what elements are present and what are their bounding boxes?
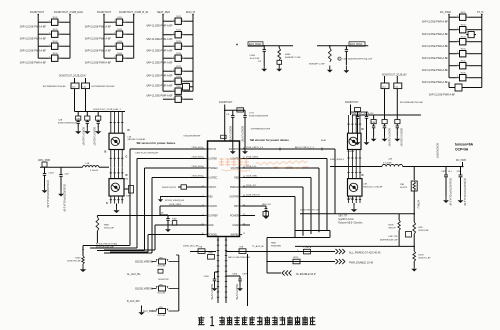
wire left filter feed A bbox=[74, 78, 76, 83]
node U1 left pin 2 net label bbox=[191, 147, 203, 149]
svg-text:9R22F: 9R22F bbox=[293, 257, 299, 259]
wire right filter drop B bbox=[396, 89, 398, 115]
svg-text:B21DB_VREF(2)-: B21DB_VREF(2)- bbox=[135, 262, 153, 264]
svg-text:D: D bbox=[126, 173, 128, 177]
resistor R125 bbox=[163, 66, 193, 74]
capacitor C3B2 bbox=[457, 167, 463, 197]
wire BST right bbox=[242, 205, 262, 207]
resistor R114 bbox=[104, 53, 134, 61]
wire bankD right bus bbox=[481, 14, 483, 78]
svg-text:SAP-CLOSE-PWR-A-BF: SAP-CLOSE-PWR-A-BF bbox=[429, 94, 456, 97]
svg-text:SB version for power James: SB version for power James bbox=[250, 138, 289, 142]
wire PT_AUX left bbox=[190, 251, 216, 253]
node bankA top net labels bbox=[30, 11, 83, 14]
svg-text:R4B: R4B bbox=[418, 227, 423, 229]
wire Q2 drain pins bbox=[110, 167, 124, 178]
capacitor C4B (left filter 2) bbox=[85, 112, 90, 128]
node bankA row 1 net label bbox=[20, 26, 47, 29]
node L4B HB01204 label bbox=[363, 184, 383, 189]
flag ALL_PWRGD output bbox=[336, 249, 345, 254]
resistor R4B (feedback) bbox=[413, 222, 430, 234]
svg-text:21DB_VSETL_F 4: 21DB_VSETL_F 4 bbox=[246, 147, 264, 149]
wire feedback tap upper bbox=[300, 213, 415, 215]
wire Q2 source pins bbox=[110, 196, 124, 204]
svg-text:0R147F: 0R147F bbox=[400, 187, 408, 189]
svg-text:+3VPWRBGNDTN*BF: +3VPWRBGNDTN*BF bbox=[250, 129, 271, 131]
resistor R3B (sense) bbox=[400, 167, 417, 192]
node bankB row 4 net label bbox=[85, 62, 112, 65]
svg-text:SAP-CLOSE-PWR-A-BF: SAP-CLOSE-PWR-A-BF bbox=[20, 50, 47, 53]
node DGNDTOUT_2/12B_BV label (right filter) bbox=[382, 75, 407, 77]
resistor R137 (bank D extra) bbox=[466, 32, 476, 38]
node B21DB_VREF(2)-BF label bbox=[165, 200, 185, 202]
flag PWR_ENABLE output bbox=[336, 259, 345, 264]
connector JP1 row bbox=[135, 257, 179, 267]
svg-text:L2B: L2B bbox=[388, 159, 392, 161]
svg-text:PWR_ENABLE 10.45: PWR_ENABLE 10.45 bbox=[349, 261, 374, 264]
svg-text:DGNDTOUT: DGNDTOUT bbox=[30, 11, 45, 14]
resistor R111 bbox=[104, 17, 134, 25]
resistor R123 bbox=[163, 41, 193, 49]
node U1 right pin row 5 net label bbox=[246, 194, 260, 196]
resistor R47B bbox=[413, 251, 431, 262]
ground (right filter 1) bbox=[371, 136, 377, 142]
resistor R67B (divider) bbox=[388, 214, 400, 247]
inductor L4B bbox=[83, 163, 100, 172]
node U1 left pin 4 net label bbox=[191, 166, 203, 168]
wire U1 right pin row 4 staircase bbox=[242, 187, 303, 236]
node bankB row 3 net label bbox=[85, 50, 112, 53]
wire U1 left pin 4 staircase bbox=[97, 168, 205, 251]
wire RC network 1 rail bbox=[248, 45, 293, 47]
svg-text:PWRGD: PWRGD bbox=[230, 187, 239, 189]
resistor R135 bbox=[449, 61, 482, 69]
wire OSTRP0 right bbox=[242, 196, 292, 198]
wire U1 left pin 5 staircase bbox=[104, 178, 205, 254]
wire Q4 drain pins bbox=[347, 167, 361, 179]
resistor R4B6 bbox=[263, 212, 269, 217]
wire PWR_ENABLE bbox=[266, 261, 335, 263]
wire bottom aux vertical bbox=[247, 254, 249, 306]
svg-text:D: D bbox=[362, 173, 364, 177]
svg-text:21DB_SH3L: 21DB_SH3L bbox=[191, 166, 203, 168]
svg-text:PWRBTN: PWRBTN bbox=[229, 149, 239, 151]
svg-text:SEAT_PEN: SEAT_PEN bbox=[157, 11, 170, 14]
capacitor C4B (left filter 1) bbox=[76, 112, 81, 128]
svg-text:B64B: B64B bbox=[321, 140, 327, 142]
node bankA row 4 net label bbox=[20, 62, 47, 65]
ground (right filter 2) bbox=[382, 136, 388, 142]
svg-text:21DB_SH6TL: 21DB_SH6TL bbox=[246, 156, 260, 158]
svg-text:STB2DRGBN*BF: STB2DRGBN*BF bbox=[183, 135, 201, 137]
node figure caption 图1 bbox=[198, 316, 316, 325]
svg-text:EGN_M: EGN_M bbox=[186, 11, 195, 14]
resistor R138 (bank D bottom loop) bbox=[429, 78, 482, 97]
svg-text:POWER: POWER bbox=[230, 216, 239, 218]
node 7_AUX_RKI label bbox=[127, 300, 140, 303]
wire TONSEL left bbox=[148, 235, 205, 253]
node EGN_BCE3 label (net 2) bbox=[349, 42, 365, 46]
svg-text:DGNDTOUT_2/12B_EGN: DGNDTOUT_2/12B_EGN bbox=[54, 11, 83, 14]
svg-text:B21DB_VREF(2)-BF: B21DB_VREF(2)-BF bbox=[165, 200, 185, 202]
svg-text:C4B: C4B bbox=[65, 174, 70, 176]
node G label (Q1) bbox=[126, 156, 128, 159]
ground (Q3 feed 2) bbox=[364, 139, 370, 145]
svg-text:DGNDTOUT: DGNDTOUT bbox=[345, 101, 359, 104]
svg-text:SAP-CLOSE-PWR-A-BF: SAP-CLOSE-PWR-A-BF bbox=[422, 21, 449, 24]
node B21DB_PRE_B label bbox=[96, 244, 118, 249]
node B64B label bbox=[321, 140, 327, 142]
resistor R132 bbox=[449, 25, 482, 33]
svg-text:AFCOL VSETL_F_4: AFCOL VSETL_F_4 bbox=[295, 146, 315, 149]
node U1 right pin row 1 net label bbox=[246, 156, 260, 158]
wire POWER right bbox=[242, 215, 255, 217]
svg-text:B21DB_VREF(2)-: B21DB_VREF(2)- bbox=[135, 289, 153, 291]
svg-text:BOOT0: BOOT0 bbox=[208, 149, 217, 151]
ground (C4B U1 left) bbox=[165, 226, 171, 232]
svg-text:C30F: C30F bbox=[242, 274, 248, 276]
node DC_PWR label bbox=[456, 160, 466, 162]
ground (C4B5) bbox=[344, 66, 350, 74]
node bankC row 2 net label bbox=[146, 38, 173, 41]
node DGND_AUX_BF label bbox=[183, 244, 199, 247]
capacitor C30B (bottom B) bbox=[226, 274, 248, 286]
node stray junction dot bbox=[236, 44, 238, 46]
svg-text:C4B5 4B2BGNDTNPSOUA-1-BF: C4B5 4B2BGNDTNPSOUA-1-BF bbox=[343, 58, 373, 61]
wire RC network 2 rail bbox=[317, 45, 368, 47]
svg-text:C30B: C30B bbox=[232, 274, 238, 276]
svg-text:R8B1: R8B1 bbox=[271, 243, 277, 245]
node watermark bbox=[220, 158, 311, 171]
svg-text:(R)RPBRGUA*1-BF: (R)RPBRGUA*1-BF bbox=[380, 239, 399, 242]
node DRGB2TN2 label bbox=[158, 279, 170, 281]
node C30B value label A bbox=[210, 284, 213, 300]
ground (FB0) bbox=[158, 196, 165, 202]
svg-text:C4B7 22B: C4B7 22B bbox=[388, 236, 398, 238]
svg-text:BST: BST bbox=[234, 206, 239, 208]
svg-text:R52-2-BF: R52-2-BF bbox=[158, 315, 167, 317]
svg-text:WKPB1: WKPB1 bbox=[231, 235, 240, 237]
ground (left filter 2) bbox=[84, 128, 90, 135]
capacitor C4B6 (BST) bbox=[262, 206, 267, 214]
ground (Q3 feed 1) bbox=[355, 139, 361, 145]
svg-text:DGNDTOUT_2/12B_EGN_1: DGNDTOUT_2/12B_EGN_1 bbox=[93, 109, 121, 111]
node S label (Q2 source) bbox=[106, 201, 108, 205]
wire GND pin left bbox=[155, 225, 205, 250]
node +3VPWRBGNDTN-BF label bbox=[250, 129, 271, 131]
node STB2DRGBN-BF label bbox=[183, 135, 226, 138]
ground (R4B7) bbox=[80, 264, 86, 272]
wire bankA left bus bbox=[37, 14, 39, 59]
svg-text:GgmB.5~12xG: GgmB.5~12xG bbox=[338, 219, 353, 221]
ground (C4B4) bbox=[261, 65, 267, 72]
wire pulldown node bbox=[82, 246, 84, 257]
wire right filter drop A bbox=[384, 89, 386, 115]
svg-text:SAP-CLOSE-PWR-A-BF: SAP-CLOSE-PWR-A-BF bbox=[20, 26, 47, 29]
node ALL_PWRGD label bbox=[349, 251, 381, 254]
svg-text:L_PB2_A: L_PB2_A bbox=[303, 246, 311, 249]
resistor R4B5 (U1 left) bbox=[172, 219, 177, 226]
resistor R103 bbox=[38, 41, 70, 49]
svg-text:BGNDYUN10-BF: BGNDYUN10-BF bbox=[93, 127, 96, 146]
svg-text:OSTRP0: OSTRP0 bbox=[229, 197, 239, 199]
ground (C30B A) bbox=[212, 285, 218, 291]
svg-text:BGNDYUN*BF: BGNDYUN*BF bbox=[210, 284, 213, 300]
node D label (Q4 drain) bbox=[362, 173, 364, 177]
wire OUTREF left long bbox=[97, 215, 204, 217]
svg-text:DGNDTN*1-BF: DGNDTN*1-BF bbox=[67, 261, 81, 263]
node bankC row 4 net label bbox=[146, 62, 173, 65]
wire Q3 top feed bbox=[351, 105, 369, 116]
wire Q1 drain pins bbox=[110, 112, 124, 134]
resistor R113 bbox=[104, 41, 134, 49]
svg-text:21DB_DLK: 21DB_DLK bbox=[246, 166, 257, 168]
svg-text:RGNDTOUTB: RGNDTOUTB bbox=[162, 187, 176, 189]
node bankC row 5 net label bbox=[146, 75, 173, 78]
ground (C7L) bbox=[230, 147, 236, 154]
node Q1 part label bbox=[124, 179, 129, 181]
resistor L_RST (row2) bbox=[158, 269, 163, 273]
wire Q4 source pins bbox=[347, 196, 361, 203]
wire SL_ENABLE bbox=[267, 272, 281, 274]
svg-text:21DB_SMLL: 21DB_SMLL bbox=[246, 175, 259, 177]
svg-text:0R047F-1-BF: 0R047F-1-BF bbox=[418, 258, 431, 260]
node C7L value label bbox=[229, 126, 232, 142]
svg-text:BGNDYUN*BF: BGNDYUN*BF bbox=[241, 126, 244, 142]
wire PT_AUX right bbox=[226, 251, 335, 253]
svg-text:BGNDBF*1-3 BF: BGNDBF*1-3 BF bbox=[309, 64, 325, 66]
resistor R6B2 bbox=[297, 246, 312, 254]
node left filter value label B bbox=[93, 127, 96, 146]
svg-text:4.7uH-BF: 4.7uH-BF bbox=[383, 163, 392, 165]
resistor R136 bbox=[449, 73, 482, 81]
svg-text:PT_AUX_BF: PT_AUX_BF bbox=[252, 245, 265, 248]
node C30B value label B bbox=[235, 284, 238, 300]
wire PWRBTN right bbox=[242, 148, 335, 214]
svg-text:L7G1: L7G1 bbox=[249, 113, 255, 115]
node DGNDTOUT_2/12B_EGN label (left filter) bbox=[59, 76, 86, 78]
ground (C4B6) bbox=[263, 214, 269, 219]
svg-text:C4B: C4B bbox=[160, 213, 165, 215]
capacitor C4B (left filter 3) bbox=[96, 112, 101, 128]
node PT_AUX_BF label bbox=[252, 245, 265, 248]
transistor Q1 bbox=[109, 133, 124, 149]
wire left filter feed B bbox=[85, 78, 87, 83]
inductor L11 (pair) bbox=[381, 83, 402, 89]
ground (C32B) bbox=[58, 190, 64, 197]
capacitor C4B (right filter 3) bbox=[395, 115, 400, 136]
resistor R121 bbox=[163, 16, 193, 24]
node BLPWRBGNDTN10-BF label (left) bbox=[43, 86, 115, 88]
wire feedback tap lower bbox=[295, 246, 415, 248]
resistor RGNDTOUTB bbox=[162, 185, 205, 189]
wire bus loop bottom B bbox=[293, 231, 330, 238]
node bankD top net labels bbox=[440, 11, 483, 14]
capacitor C3B1 bbox=[441, 167, 452, 197]
svg-text:DGNDTOUT_2/12B_BV: DGNDTOUT_2/12B_BV bbox=[350, 113, 374, 115]
svg-text:SAP-CLOSE-PWR-A-BF: SAP-CLOSE-PWR-A-BF bbox=[422, 33, 449, 36]
svg-text:SAP-CLOSE-PWR-A-BF: SAP-CLOSE-PWR-A-BF bbox=[146, 38, 173, 41]
ground (C31B) bbox=[42, 187, 48, 194]
svg-text:SAP-CLOSE-PWR-A-BF: SAP-CLOSE-PWR-A-BF bbox=[85, 26, 112, 29]
svg-text:R67B: R67B bbox=[388, 225, 394, 227]
resistor R131 bbox=[449, 12, 482, 20]
svg-text:640B_5W54.4: 640B_5W54.4 bbox=[330, 159, 345, 161]
node phase connector bbox=[42, 162, 47, 167]
svg-text:(R)BGNDTNPROUA-1-BF: (R)BGNDTNPROUA-1-BF bbox=[463, 178, 466, 206]
svg-text:B: B bbox=[105, 150, 107, 154]
wire bankC left bus bbox=[162, 14, 164, 92]
node U1 right pin row 3 net label bbox=[246, 175, 259, 177]
wire Q3 drain pins bbox=[347, 115, 361, 133]
resistor R4B2 bbox=[277, 46, 301, 65]
resistor R122 bbox=[163, 30, 193, 38]
svg-text:PGOOD: PGOOD bbox=[208, 206, 217, 208]
capacitor C4B (right filter 2) bbox=[382, 115, 387, 136]
wire feedback mid bbox=[413, 234, 415, 251]
wire U1 bottom pin A bbox=[217, 237, 219, 304]
node C31B value label bbox=[46, 180, 49, 208]
node SL_ENABLE label bbox=[296, 273, 316, 276]
node bankD row 5 net label bbox=[422, 69, 449, 72]
capacitor C4BB bbox=[237, 108, 247, 147]
svg-text:B21DB_PRE_B DG7B4: B21DB_PRE_B DG7B4 bbox=[96, 244, 118, 246]
wire right filter feed B bbox=[396, 76, 398, 83]
svg-text:L4B: L4B bbox=[363, 184, 367, 186]
svg-text:C31B: C31B bbox=[49, 173, 55, 175]
svg-text:BGNDYUN*BF: BGNDYUN*BF bbox=[436, 143, 438, 159]
svg-text:0R047F-BF: 0R047F-BF bbox=[418, 230, 429, 232]
wire connector bus top jog bbox=[176, 254, 179, 256]
ground (C4BB) bbox=[242, 147, 248, 154]
node PWR_ENABLE label bbox=[349, 261, 374, 264]
node bankD row 1 net label bbox=[422, 21, 449, 24]
svg-text:SAP-CLOSE-PWR-A-BF: SAP-CLOSE-PWR-A-BF bbox=[146, 95, 173, 98]
svg-text:SAP-CLOSE-PWR-A-BF: SAP-CLOSE-PWR-A-BF bbox=[422, 69, 449, 72]
node bankD row 2 net label bbox=[422, 33, 449, 36]
svg-text:(R)RPSRGUA*1-BF: (R)RPSRGUA*1-BF bbox=[96, 246, 115, 249]
svg-text:SAP-CLOSE-PWR-A-BF: SAP-CLOSE-PWR-A-BF bbox=[85, 38, 112, 41]
resistor R134 bbox=[449, 49, 482, 57]
node C4B BGNDYUNSRGNBF label bbox=[58, 120, 78, 125]
wire U1 right pin row 2 staircase bbox=[242, 168, 319, 232]
node bankB row 1 net label bbox=[85, 26, 112, 29]
svg-text:(R)BGNDTNPROUA-1-BF: (R)BGNDTNPROUA-1-BF bbox=[62, 184, 65, 212]
resistor R3B (Q2 gate) bbox=[124, 186, 134, 198]
svg-text:SAP-CLOSE-PWR-A-BF: SAP-CLOSE-PWR-A-BF bbox=[422, 45, 449, 48]
op-amp U1 (power controller IC) bbox=[202, 141, 246, 237]
wire U1 left pin 2 staircase bbox=[83, 149, 205, 246]
node U1 right pin row 4 net label bbox=[246, 185, 257, 187]
node SAP-CLOSE label (bottom) bbox=[228, 256, 251, 259]
ground (C3B2) bbox=[458, 196, 464, 203]
ground (right filter 3) bbox=[394, 136, 400, 142]
svg-text:PHASE0: PHASE0 bbox=[208, 167, 218, 170]
node AL_AUX_BG label bbox=[127, 273, 141, 276]
svg-text:SAP-CLOSE-PWR-A-BF: SAP-CLOSE-PWR-A-BF bbox=[146, 75, 173, 78]
svg-text:BGNDBF*1-3 BF: BGNDBF*1-3 BF bbox=[285, 57, 301, 59]
svg-text:SAP-CLOSE-PWR-A-BF: SAP-CLOSE-PWR-A-BF bbox=[85, 62, 112, 65]
ground (feedback) bbox=[411, 262, 417, 272]
svg-text:GR147F: GR147F bbox=[388, 228, 396, 230]
node EGN_BCE3 label (net 1) bbox=[248, 42, 263, 46]
svg-text:B_AUX_RKI: B_AUX_RKI bbox=[127, 300, 140, 303]
ground (left filter 3) bbox=[95, 128, 101, 135]
resistor R104 bbox=[38, 53, 70, 61]
ground (left filter 1) bbox=[75, 128, 81, 135]
wire FB0 ground stub bbox=[165, 196, 205, 198]
svg-text:R52-2-BF: R52-2-BF bbox=[158, 293, 167, 295]
node 640B_5W54.4 label bbox=[330, 159, 345, 161]
svg-text:R8B1: R8B1 bbox=[104, 225, 110, 227]
wire Q1 source pins bbox=[110, 150, 124, 168]
svg-text:BGNDYUN10-BF: BGNDYUN10-BF bbox=[82, 127, 85, 146]
svg-text:SAP-CLOSE-PWR-A-BF: SAP-CLOSE-PWR-A-BF bbox=[85, 50, 112, 53]
svg-text:BGNDYUN10-BF: BGNDYUN10-BF bbox=[400, 128, 403, 147]
wire left phase rail bbox=[40, 166, 109, 168]
svg-text:C4B4: C4B4 bbox=[250, 55, 256, 57]
svg-text:SB version for power James: SB version for power James bbox=[137, 141, 176, 145]
svg-text:DC_PWR: DC_PWR bbox=[440, 11, 451, 14]
svg-text:SR42.2-BF: SR42.2-BF bbox=[104, 228, 115, 230]
wire PGOOD left bbox=[160, 206, 205, 215]
svg-text:Robcox=1B.5~21mohm: Robcox=1B.5~21mohm bbox=[338, 223, 362, 225]
resistor R101 bbox=[38, 17, 70, 25]
svg-text:OCP=9A: OCP=9A bbox=[455, 147, 469, 151]
node L7G1 BGNDYUNSRGN-BF label bbox=[249, 113, 269, 118]
resistor R8B1 bbox=[96, 217, 115, 231]
node bankD row 3 net label bbox=[422, 45, 449, 48]
wire bankB right bus bbox=[133, 14, 135, 59]
svg-text:R4B7: R4B7 bbox=[75, 258, 81, 260]
resistor R5B (right) bbox=[239, 247, 246, 254]
wire GND2 right bbox=[242, 224, 250, 226]
resistor R133 bbox=[449, 37, 482, 45]
wire left filter rail bbox=[75, 111, 126, 113]
ground (Q2 source) bbox=[113, 204, 119, 214]
svg-text:21DB_SH2L: 21DB_SH2L bbox=[191, 156, 203, 158]
svg-text:(R)BGNDTNPROUA-1-BF: (R)BGNDTNPROUA-1-BF bbox=[46, 180, 49, 208]
svg-text:R12B: R12B bbox=[184, 82, 190, 84]
wire Q3 source pins bbox=[347, 150, 361, 167]
node G4000B label (Q3) bbox=[347, 151, 355, 153]
svg-text:17AB: 17AB bbox=[208, 251, 213, 254]
svg-text:BGNDYUNSRGN*BF: BGNDYUNSRGN*BF bbox=[249, 116, 269, 118]
connector JP2 row bbox=[135, 284, 179, 294]
transistor Q4 bbox=[348, 179, 363, 197]
svg-text:10uF-1-BF: 10uF-1-BF bbox=[250, 58, 261, 60]
wire feedback vertical bbox=[414, 191, 419, 222]
resistor R30B bbox=[293, 257, 300, 264]
ground (Q4 source) bbox=[351, 203, 357, 212]
node U1 left pin 5 net label bbox=[191, 175, 203, 177]
svg-text:R3B: R3B bbox=[400, 184, 405, 186]
node MGB_GB label bbox=[262, 204, 271, 206]
resistor R127 bbox=[163, 86, 193, 94]
node bankA row 2 net label bbox=[20, 38, 47, 41]
wire U1 top feed bbox=[224, 105, 245, 142]
svg-text:DGNDTOUT: DGNDTOUT bbox=[97, 11, 112, 14]
svg-text:4.7uH-BF: 4.7uH-BF bbox=[90, 170, 99, 172]
svg-text:TONSEL: TONSEL bbox=[208, 235, 218, 237]
flag SL_ENABLE input bbox=[282, 270, 291, 275]
svg-text:DRGB2TN2: DRGB2TN2 bbox=[158, 279, 170, 281]
wire U1 right pin row 3 staircase bbox=[242, 178, 311, 235]
svg-text:C30B: C30B bbox=[204, 276, 210, 278]
svg-text:BLPWRBGNDTN10-BF: BLPWRBGNDTN10-BF bbox=[92, 86, 116, 88]
node bankC row 1 net label bbox=[146, 25, 173, 28]
wire bus loop to enable bbox=[267, 238, 293, 274]
